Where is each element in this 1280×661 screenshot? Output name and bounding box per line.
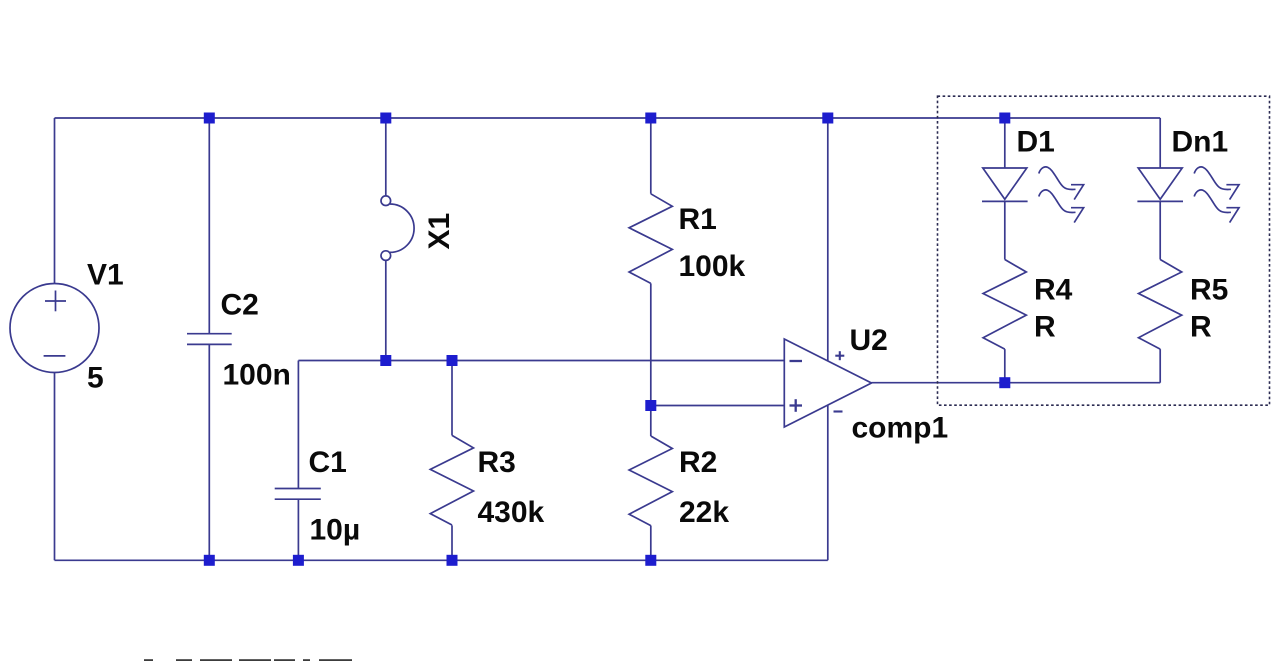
svg-text:V1: V1 [87, 259, 124, 292]
wire: C2 bottom [208, 344, 210, 560]
svg-text:5: 5 [87, 362, 104, 395]
capacitor C1 [275, 489, 321, 500]
junction: bottom rail / C2 [204, 555, 215, 566]
resistor R3 [430, 435, 473, 525]
svg-text:430k: 430k [478, 496, 545, 529]
clipped text at bottom edge [144, 659, 352, 661]
wire: bottom rail [55, 559, 828, 561]
svg-text:R: R [1034, 311, 1056, 344]
element X1 [381, 196, 414, 261]
capacitor C2 [187, 334, 232, 345]
junction: mid rail / R3 [447, 355, 458, 366]
wire: R3 top [451, 361, 453, 436]
svg-text:22k: 22k [679, 496, 729, 529]
junction: bottom rail / R3 [447, 555, 458, 566]
svg-text:R5: R5 [1190, 274, 1228, 307]
wire: D1 to R4 [1004, 201, 1006, 259]
LED Dn1 [1137, 167, 1239, 223]
junction: R1-R2 / +input [645, 400, 656, 411]
junction: top rail / U2 V+ [822, 113, 833, 124]
svg-text:R: R [1190, 311, 1212, 344]
wire: R5 to output node [1005, 382, 1160, 384]
wire: R3 bottom [451, 525, 453, 560]
LED D1 [982, 167, 1084, 223]
resistor R1 [629, 194, 672, 284]
wire: C2 top [208, 118, 210, 334]
svg-text:10µ: 10µ [310, 513, 361, 546]
svg-text:U2: U2 [850, 324, 888, 357]
junction: top rail / C2 [204, 113, 215, 124]
dotted box [938, 96, 1270, 405]
resistor R2 [629, 436, 672, 526]
wire: mid rail (inverting input net) [298, 360, 784, 362]
svg-text:D1: D1 [1017, 126, 1055, 159]
wire: U2 V- supply [827, 405, 829, 560]
wire: D1 top [1004, 118, 1006, 168]
wire: C1 bottom [297, 499, 299, 560]
resistor R4 [983, 260, 1026, 350]
junction: top rail / X1 [380, 113, 391, 124]
wire: U2 V+ supply [827, 118, 829, 361]
junction: bottom rail / R2 [645, 555, 656, 566]
wire: C1 top [297, 361, 299, 489]
svg-text:100k: 100k [679, 250, 746, 283]
svg-text:100n: 100n [223, 359, 291, 392]
wire: noninverting input [651, 405, 785, 407]
wire: U2 output [872, 382, 1005, 384]
wire: X1 bottom [385, 260, 387, 360]
junction: bottom rail / C1 [293, 555, 304, 566]
wire: R5 bottom [1159, 349, 1161, 383]
svg-text:Dn1: Dn1 [1172, 126, 1229, 159]
junction: mid rail / X1 [380, 355, 391, 366]
svg-text:R4: R4 [1034, 274, 1073, 307]
voltage source V1 [10, 284, 99, 373]
svg-text:comp1: comp1 [852, 412, 949, 445]
wire: R4 bottom [1004, 349, 1006, 383]
wire: Dn1 top [1159, 118, 1161, 168]
svg-text:R2: R2 [679, 446, 717, 479]
wire: left rail lower [54, 373, 56, 561]
junction: output node [999, 377, 1010, 388]
wire: X1 top [385, 118, 387, 196]
svg-text:X1: X1 [423, 213, 456, 250]
junction: top rail / D1 [999, 113, 1010, 124]
svg-text:R1: R1 [679, 203, 717, 236]
wire: top rail [55, 117, 1161, 119]
wire: R1 to R2 [650, 283, 652, 436]
wire: R1 top [650, 118, 652, 194]
junction: top rail / R1 [645, 113, 656, 124]
svg-text:R3: R3 [478, 446, 516, 479]
wire: left rail upper [54, 118, 56, 284]
wire: Dn1 to R5 [1159, 201, 1161, 259]
wire: R2 bottom [650, 526, 652, 561]
resistor R5 [1139, 260, 1182, 350]
op-amp U2 [784, 339, 871, 427]
svg-text:C1: C1 [309, 446, 347, 479]
svg-text:C2: C2 [221, 288, 259, 321]
